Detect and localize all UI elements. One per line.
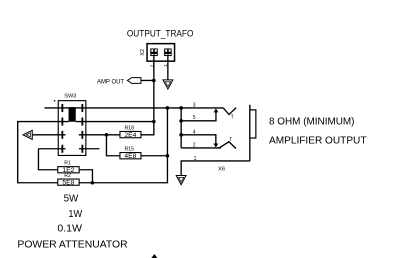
junction output node bbox=[166, 154, 170, 158]
wire R1 right to rail bbox=[79, 170, 92, 183]
wire SW3 row3 right to R18 bbox=[79, 134, 120, 136]
svg-text:AMPLIFIER OUTPUT: AMPLIFIER OUTPUT bbox=[269, 136, 367, 147]
wire arrow to SW3 row3 bbox=[32, 134, 65, 136]
wire SW3 row1 left stub bbox=[44, 107, 68, 109]
wire X2 pin 2 down to net bbox=[153, 56, 155, 122]
resistor R1 bbox=[58, 167, 79, 174]
wire SW3 row4 right stub bbox=[79, 148, 100, 150]
wire R15 left to row3 bbox=[106, 135, 120, 156]
junction row3 / R15 node bbox=[105, 133, 109, 137]
switch SW3 body bbox=[58, 101, 86, 156]
connector X2 body bbox=[147, 44, 175, 62]
junction AMP OUT node bbox=[152, 79, 156, 83]
svg-text:AMP OUT: AMP OUT bbox=[97, 78, 124, 85]
svg-text:X6: X6 bbox=[218, 166, 225, 172]
wire pin5 with switch arrow up bbox=[181, 108, 218, 121]
wire SW3 row2 right to trafo node bbox=[76, 121, 154, 123]
svg-text:R1: R1 bbox=[64, 160, 71, 166]
wire R18 right up to trafo node bbox=[141, 122, 154, 135]
switch SW3 marker dot bbox=[54, 100, 55, 101]
clipped symbol at bottom edge bbox=[151, 254, 158, 258]
wire AMP OUT tag to node bbox=[141, 79, 154, 81]
jack tip lever bbox=[223, 108, 236, 115]
jack X6 body bbox=[250, 105, 256, 161]
junction pin3 / pins vertical bbox=[179, 106, 183, 110]
junction R1 / rail node bbox=[91, 181, 95, 185]
resistor R2 bbox=[58, 179, 79, 186]
junction pin3 / output bbox=[166, 106, 170, 110]
svg-text:0.1W: 0.1W bbox=[57, 223, 82, 234]
svg-text:T: T bbox=[231, 114, 234, 120]
wire pin1 / sleeve bbox=[181, 161, 250, 175]
ground symbol at X2 pin 1 bbox=[163, 80, 173, 89]
wire SW3 row1 right to jack tip (pin 3 net) bbox=[76, 107, 224, 109]
resistor R15 bbox=[120, 153, 141, 160]
wire SW3 row2 left to lower rail bbox=[18, 122, 69, 183]
svg-text:2E4: 2E4 bbox=[124, 133, 137, 139]
wire output node up to pin3 net bbox=[166, 108, 168, 156]
ground symbol at X6 pin 1 bbox=[176, 175, 186, 184]
svg-text:OUTPUT_TRAFO: OUTPUT_TRAFO bbox=[127, 28, 193, 38]
svg-text:POWER ATTENUATOR: POWER ATTENUATOR bbox=[17, 240, 128, 251]
wire pins vertical bbox=[180, 108, 182, 148]
junction pin5 bbox=[179, 119, 183, 123]
junction trafo / row2 / R18 node bbox=[152, 120, 156, 124]
svg-text:3: 3 bbox=[193, 102, 196, 108]
wire X2 pin 1 down to ground bbox=[167, 56, 169, 80]
svg-text:R18: R18 bbox=[125, 125, 135, 131]
wire pin2 bbox=[181, 147, 221, 149]
svg-text:1W: 1W bbox=[68, 209, 82, 220]
wire output rail to jack bbox=[79, 156, 167, 183]
wire pin4 with switch arrow down bbox=[181, 135, 218, 148]
X2 pin 2 pad bbox=[150, 48, 158, 56]
svg-text:5W: 5W bbox=[64, 194, 79, 205]
off-page arrow left bbox=[23, 130, 32, 139]
svg-text:T: T bbox=[229, 137, 232, 143]
junction pin4 bbox=[179, 133, 183, 137]
AMP OUT tag bbox=[127, 78, 141, 84]
svg-text:R2: R2 bbox=[64, 173, 71, 179]
svg-text:R15: R15 bbox=[125, 146, 135, 152]
resistor R18 bbox=[120, 131, 141, 138]
svg-text:5E8: 5E8 bbox=[62, 180, 75, 186]
svg-text:SW3: SW3 bbox=[64, 93, 76, 99]
wire R15 right to output node bbox=[141, 155, 168, 157]
svg-text:4E8: 4E8 bbox=[124, 154, 137, 160]
X2 pin 1 pad bbox=[164, 48, 172, 56]
wire SW3 row4 left bbox=[38, 148, 65, 150]
svg-text:X2: X2 bbox=[140, 49, 146, 56]
jack ring lever bbox=[219, 142, 236, 149]
svg-text:8 OHM (MINIMUM): 8 OHM (MINIMUM) bbox=[269, 116, 355, 127]
wire row4 down to R1 bbox=[38, 149, 57, 170]
